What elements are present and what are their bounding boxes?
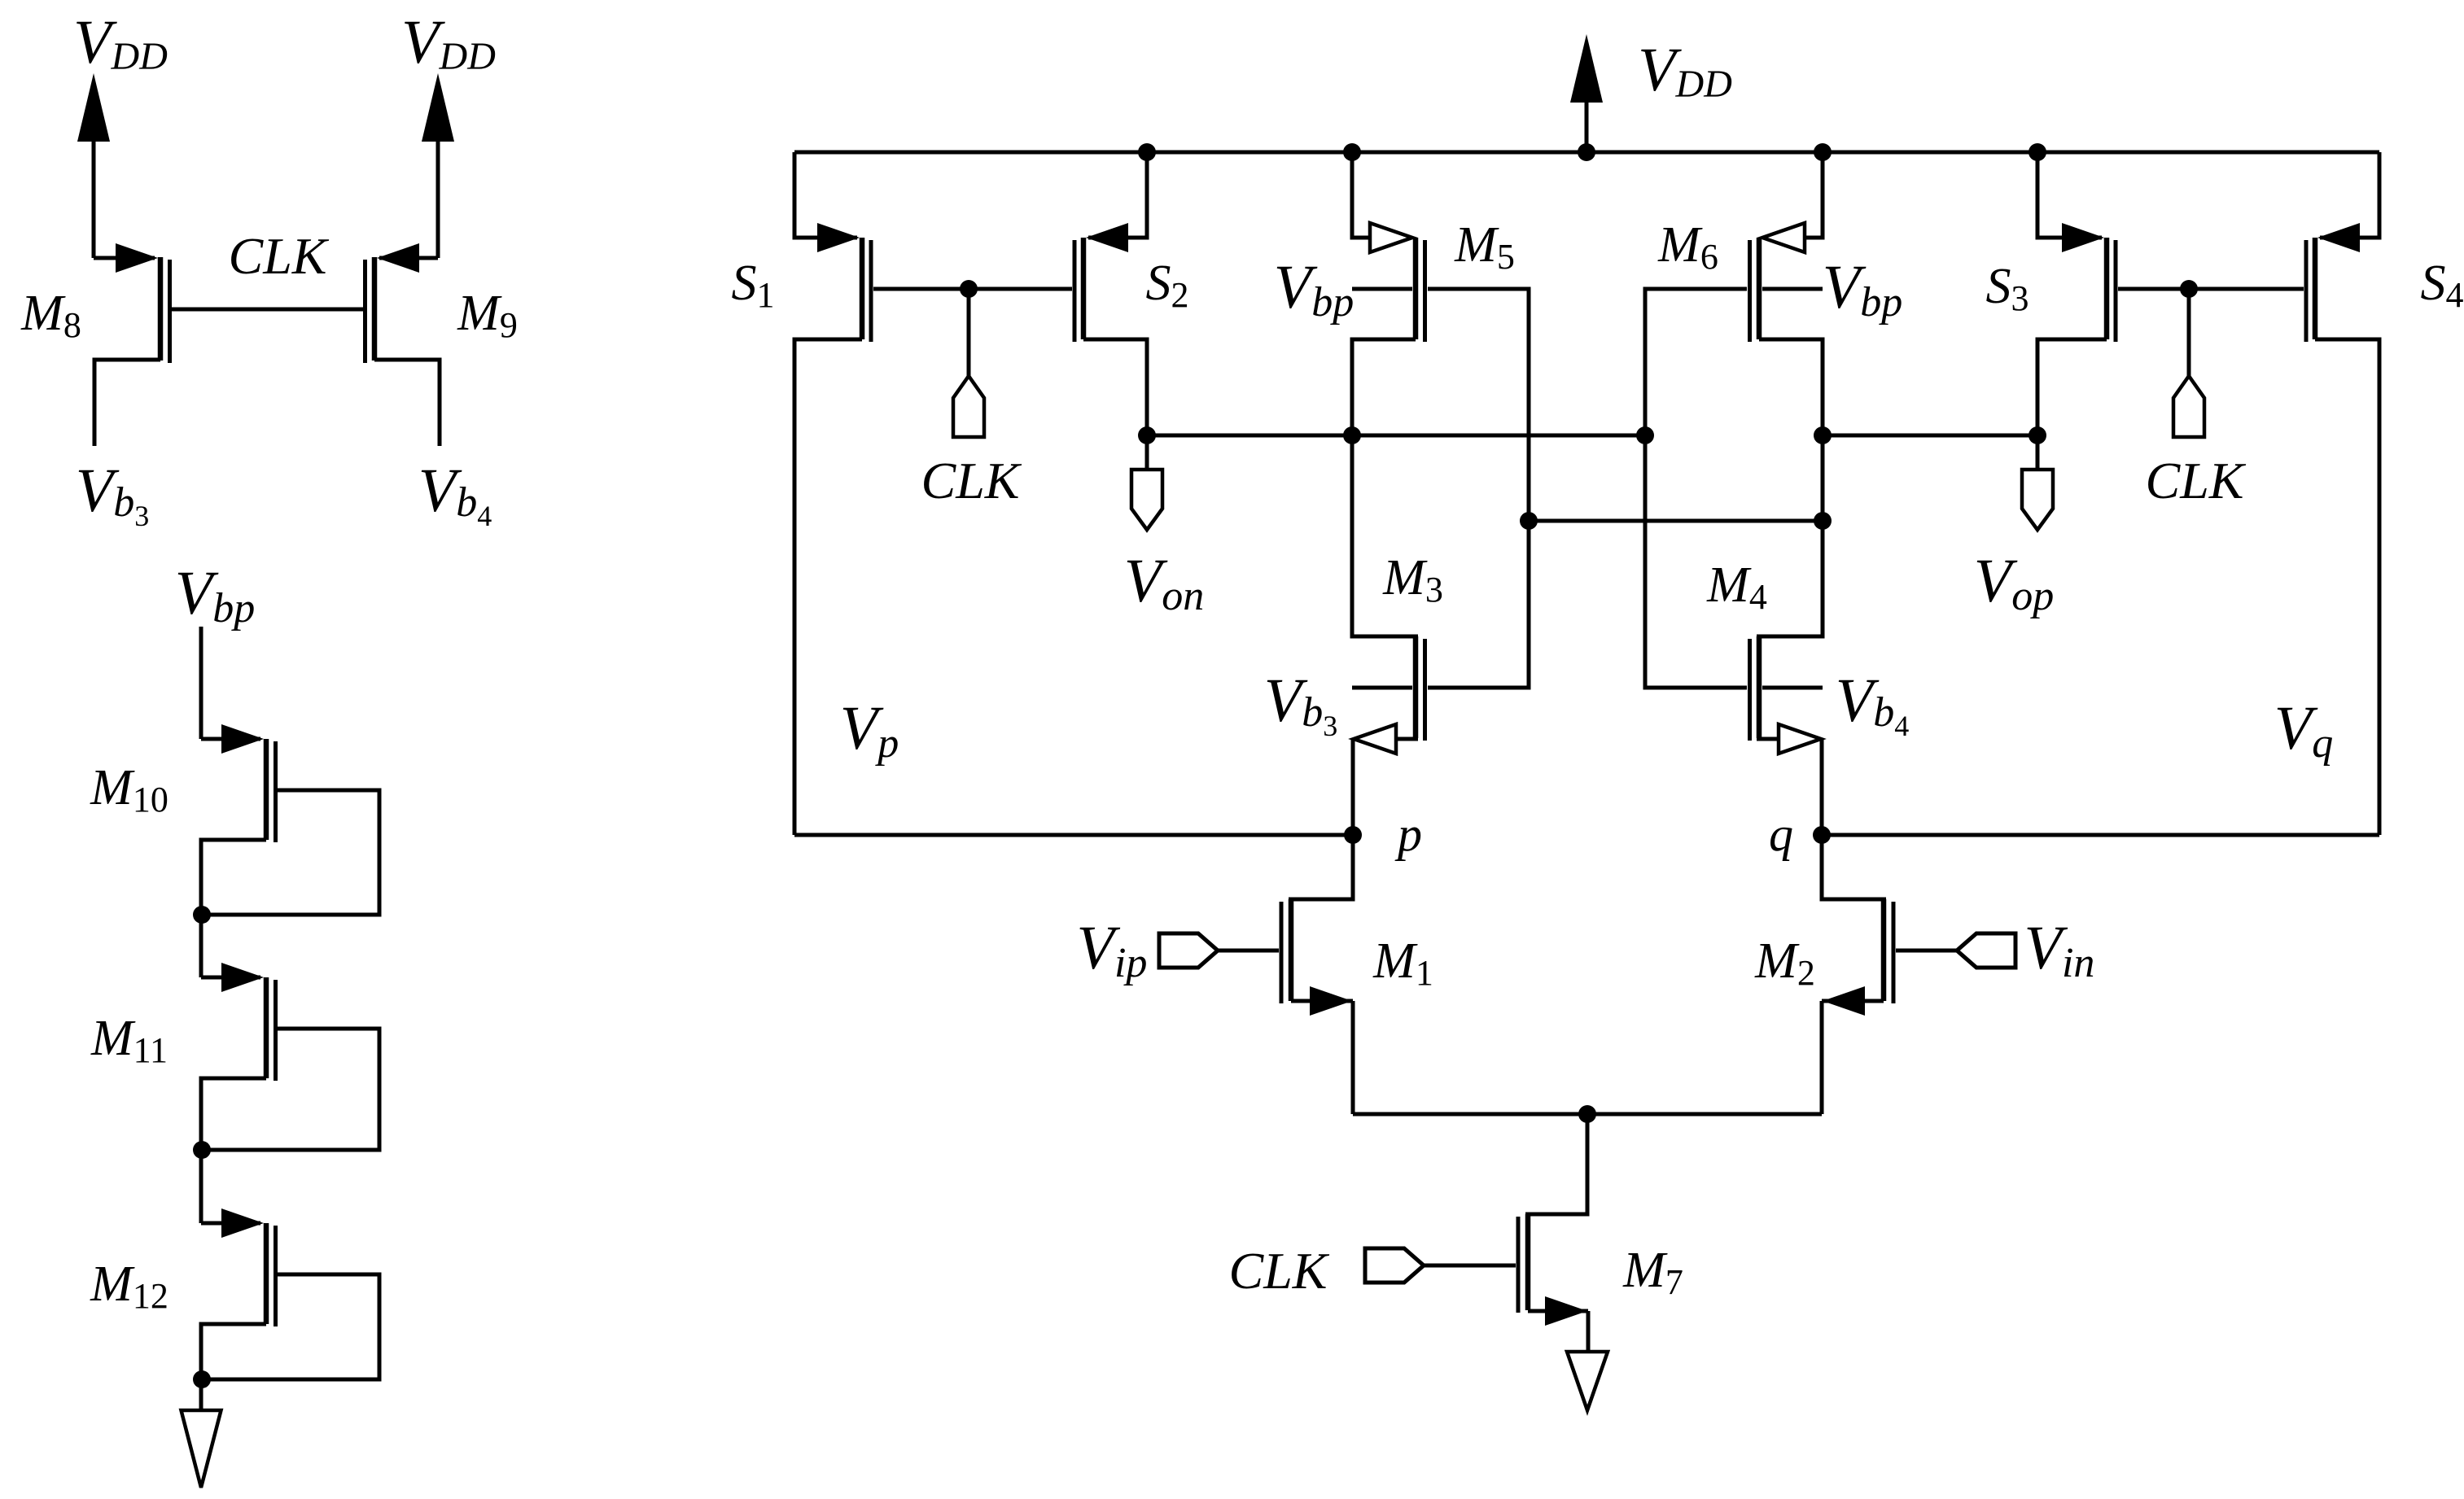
wire node Vop horizontal — [1823, 434, 2037, 438]
transistor S4 — [2304, 223, 2361, 342]
junction dot Von / M5 source — [1343, 426, 1361, 444]
power VDD symbol (above M9) — [422, 73, 454, 258]
pin CLK (right) — [2173, 376, 2204, 437]
wire M2 source lead — [1822, 999, 1884, 1003]
pin Vin input — [1957, 933, 2015, 968]
junction dot cross-coupling left — [1520, 512, 1538, 530]
svg-text:CLK: CLK — [2146, 452, 2247, 509]
wire rail to S2 drain — [1088, 152, 1147, 238]
junction dot Vop / S3 source — [2029, 426, 2046, 444]
wire Vb3 to M3 — [1352, 686, 1412, 690]
wire M3 source down to node p — [1351, 739, 1355, 835]
junction dot Von / M6 gate — [1636, 426, 1654, 444]
svg-text:CLK: CLK — [1229, 1242, 1330, 1300]
transistor M2 — [1881, 899, 1896, 1003]
wire tail down to M7 drain — [1525, 1114, 1587, 1214]
wire M4 source lead — [1757, 737, 1781, 741]
wire M4 source down to node q — [1820, 739, 1824, 835]
wire CLK gate S3-S4 — [2118, 287, 2304, 291]
wire Vop node to pin — [2036, 435, 2040, 470]
source arrow M4 (open) — [1779, 724, 1821, 754]
transistor M10 (diode-connected) — [201, 724, 278, 842]
wire M6 source down to Vop node — [1759, 339, 1823, 435]
wire M5 gate to cross-coupling — [1428, 289, 1529, 688]
wire rail right corner down to S4 drain — [2320, 152, 2379, 238]
wire M12 source down to node — [201, 1324, 266, 1379]
junction dot CLK gate wire — [960, 280, 978, 298]
svg-text:CLK: CLK — [229, 227, 330, 285]
wire M2 source down to tail — [1820, 1001, 1824, 1114]
wire S1 source to Vp rail — [794, 339, 862, 835]
wire Von node down to M3 drain — [1352, 435, 1418, 636]
wire Vb4 to M4 — [1762, 686, 1823, 690]
pin CLK (M7) — [1365, 1248, 1424, 1283]
wire M6 gate to cross-coupling — [1645, 289, 1747, 688]
wire CLK gate M8-M9 — [172, 308, 363, 312]
source arrow M1 — [1310, 986, 1352, 1016]
junction dot cross-coupling right — [1814, 512, 1832, 530]
wire S3 source down to Vop node — [2037, 339, 2107, 435]
junction dot rail / M6 drain — [1814, 143, 1832, 161]
junction dot below M11 — [193, 1141, 211, 1159]
wire M5 source down to Von node — [1352, 339, 1416, 435]
wire Vbp to M10 drain — [199, 627, 204, 739]
wire node Von horizontal — [1147, 434, 1645, 438]
transistor M9 — [363, 243, 438, 363]
wire node q down to M2 drain — [1822, 835, 1886, 899]
wire node q horizontal — [1822, 833, 2379, 837]
wire node to M11 drain — [199, 915, 204, 977]
transistor M4 — [1748, 636, 1762, 741]
wire Vbp to M5 — [1352, 287, 1412, 291]
wire node p horizontal — [794, 833, 1353, 837]
transistor S3 — [2062, 223, 2118, 342]
wire M12 gate loop to node — [202, 1274, 379, 1379]
wire S2 source down to Von node — [1083, 339, 1147, 435]
svg-text:q: q — [1769, 807, 1793, 861]
junction dot below M12 — [193, 1370, 211, 1388]
wire rail to S3 drain — [2037, 152, 2102, 238]
transistor M8 — [94, 243, 172, 363]
transistor M12 (diode-connected) — [201, 1208, 278, 1326]
transistor M6 — [1748, 223, 1805, 342]
junction dot Von / S2 — [1138, 426, 1156, 444]
wire node p down to M1 drain — [1289, 835, 1353, 899]
wire M11 gate loop to node — [202, 1029, 379, 1150]
wire M7 source lead — [1528, 1309, 1588, 1313]
transistor M1 — [1280, 899, 1294, 1003]
ground symbol (M7) — [1567, 1352, 1608, 1410]
pin Vip input — [1159, 933, 1218, 968]
junction dot rail / VDD — [1578, 143, 1595, 161]
wire rail to M6 drain — [1802, 152, 1823, 238]
wire VDD power rail — [794, 151, 2379, 155]
junction dot Vop / M6 source — [1814, 426, 1832, 444]
junction dot CLK gate wire right — [2180, 280, 2198, 298]
junction dot tail node — [1578, 1105, 1596, 1123]
wire CLK dot down to pin (right) — [2187, 289, 2191, 376]
wire M10 gate loop to node — [202, 790, 379, 915]
junction dot below M10 — [193, 906, 211, 924]
junction dot rail / S3 drain — [2029, 143, 2046, 161]
transistor M11 (diode-connected) — [201, 963, 278, 1081]
wire M11 source down to node — [201, 1078, 266, 1150]
junction dot rail / S2 drain — [1138, 143, 1156, 161]
transistor S2 — [1073, 223, 1129, 342]
wire M1 source lead — [1291, 999, 1353, 1003]
svg-text:p: p — [1394, 807, 1422, 861]
wire M7 gate to CLK pin — [1424, 1264, 1516, 1268]
wire Vop node down to M4 drain — [1757, 435, 1823, 636]
wire M8 source to Vb3 — [94, 360, 160, 446]
source arrow M7 — [1545, 1296, 1587, 1326]
junction dot node p — [1344, 826, 1362, 844]
transistor M7 — [1516, 1214, 1531, 1313]
pin Von output — [1131, 470, 1162, 530]
wire S4 source to Vq rail — [2315, 339, 2379, 835]
wire M3 source lead — [1394, 737, 1418, 741]
source arrow M2 — [1823, 986, 1865, 1016]
power VDD symbol (main rail) — [1570, 34, 1603, 152]
power VDD symbol (left, above M8) — [77, 73, 110, 258]
pin Vop output — [2022, 470, 2053, 530]
wire Von node to pin — [1145, 435, 1149, 470]
wire cross-coupling horizontal — [1529, 519, 1823, 523]
wire M1 source down to tail — [1351, 1001, 1355, 1114]
wire tail node horizontal — [1353, 1112, 1822, 1117]
ground symbol (bias stack) — [182, 1410, 221, 1488]
wire CLK gate S1-S2 — [873, 287, 1072, 291]
wire M12 node to ground — [199, 1379, 204, 1410]
pin CLK (left) — [953, 376, 984, 437]
transistor M5 — [1370, 223, 1427, 342]
wire CLK dot down to pin — [967, 289, 971, 376]
transistor S1 — [817, 223, 873, 342]
wire M10 source down to node — [201, 840, 266, 915]
wire M2 gate to Vin pin — [1896, 949, 1957, 953]
wire node to M12 drain — [199, 1150, 204, 1223]
junction dot node q — [1813, 826, 1831, 844]
transistor M3 — [1413, 636, 1427, 741]
wire rail left corner down to S1 drain — [794, 152, 857, 238]
svg-text:CLK: CLK — [921, 452, 1022, 509]
wire Vbp to M6 — [1762, 287, 1823, 291]
wire M9 source to Vb4 — [374, 360, 440, 446]
wire rail to M5 drain — [1352, 152, 1372, 238]
wire M1 gate to Vip pin — [1218, 949, 1279, 953]
wire M7 source down to ground — [1587, 1311, 1591, 1352]
source arrow M3 (open) — [1354, 724, 1396, 754]
junction dot rail / M5 drain — [1343, 143, 1361, 161]
